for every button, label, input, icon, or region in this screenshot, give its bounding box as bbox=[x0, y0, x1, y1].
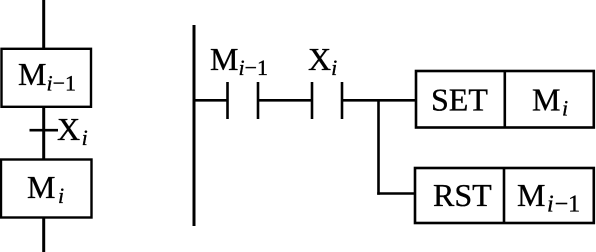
coil box RST M(i-1) bbox=[415, 168, 594, 223]
wire rail to contact M(i-1) bbox=[193, 99, 228, 102]
wire between box M(i-1) and box M(i) bbox=[42, 107, 45, 160]
coil box SET M(i) bbox=[416, 71, 594, 128]
wire bottom out of step box M(i) bbox=[42, 217, 45, 252]
contact M(i-1) bbox=[228, 82, 259, 119]
branch wire down bbox=[377, 100, 380, 195]
wire contact M(i-1) to contact X(i) bbox=[258, 99, 312, 102]
step box M(i-1) bbox=[2, 49, 92, 107]
wire contact X(i) to SET box bbox=[342, 99, 416, 102]
wire top into step box M(i-1) bbox=[42, 0, 45, 49]
contact X(i) bbox=[312, 82, 342, 119]
branch wire to RST box bbox=[377, 192, 415, 195]
transition tick X(i) bbox=[30, 129, 59, 132]
svg-text:SET: SET bbox=[431, 82, 488, 118]
step box M(i) bbox=[1, 160, 92, 218]
left power rail bbox=[193, 25, 196, 226]
svg-text:RST: RST bbox=[433, 177, 492, 213]
